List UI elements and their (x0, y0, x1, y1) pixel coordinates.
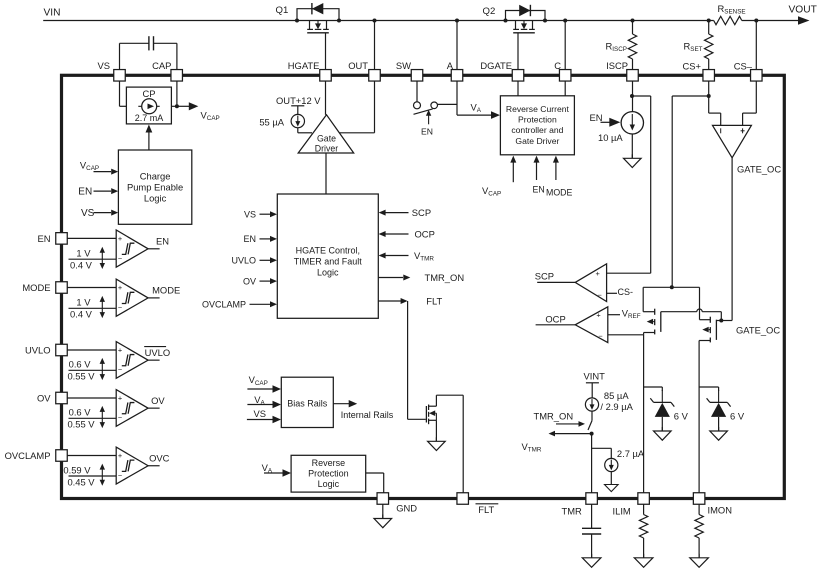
wire FLT NMOS drain to FLT pin (435, 395, 437, 406)
junction FET rail (670, 285, 674, 289)
wire C to RCP (564, 81, 566, 96)
wire FET gate line (661, 311, 697, 313)
wire VS pin to CP (119, 81, 121, 106)
svg-text:10 µA: 10 µA (598, 132, 623, 143)
resistor RISCP (632, 21, 634, 35)
svg-text:6 V: 6 V (730, 410, 745, 421)
svg-text:MODE: MODE (546, 188, 573, 198)
ground 10uA (631, 154, 633, 158)
svg-text:Logic: Logic (144, 193, 167, 204)
block HGATE Control (277, 194, 378, 318)
net VTMR arrow (553, 433, 592, 435)
input VCAP to RCP (512, 163, 514, 183)
wire ISCP pin down (632, 81, 634, 112)
svg-text:GATE_OC: GATE_OC (737, 164, 781, 175)
wire SCP minus input stub (607, 292, 617, 294)
wire IMON to zener2 (699, 386, 719, 388)
wire Q1 gate to HGATE (325, 33, 327, 70)
svg-text:SCP: SCP (535, 271, 554, 282)
wire OCP minus input (608, 334, 644, 336)
svg-text:EN: EN (243, 234, 256, 244)
output Internal Rails (333, 403, 349, 405)
svg-text:Internal Rails: Internal Rails (341, 410, 394, 420)
transistor ILIM FET (642, 287, 644, 311)
svg-text:OVCLAMP: OVCLAMP (202, 300, 246, 310)
input EN to RCP (536, 163, 538, 181)
pin OUT (369, 70, 381, 82)
wire DGATE to RCP (517, 81, 519, 96)
svg-text:+: + (596, 269, 600, 278)
svg-text:Q2: Q2 (483, 6, 496, 17)
wire OCP plus input stub (608, 314, 620, 316)
svg-text:0.4 V: 0.4 V (70, 260, 93, 271)
pin CS+ (703, 70, 715, 82)
ground RIMON (698, 554, 700, 558)
output TMR_ON (378, 277, 403, 279)
pin IMON (693, 493, 705, 505)
junction Q2 left (504, 19, 508, 23)
svg-text:6 V: 6 V (674, 410, 689, 421)
net VINT terminal (586, 382, 599, 384)
svg-text:+: + (118, 346, 122, 355)
wire 55uA to gate driver (297, 128, 299, 133)
svg-text:IMON: IMON (708, 505, 732, 516)
svg-text:CAP: CAP (152, 60, 171, 71)
pin ILIM (638, 493, 650, 505)
svg-text:+: + (118, 451, 122, 460)
block Reverse Protection Logic (291, 455, 366, 492)
svg-text:EN: EN (37, 233, 50, 244)
wire IMON FET drain down (698, 341, 700, 493)
svg-text:EN: EN (590, 112, 603, 123)
block Charge Pump Enable Logic (118, 150, 191, 224)
svg-text:ISCP: ISCP (606, 60, 628, 71)
pin C (559, 70, 571, 82)
svg-text:VS: VS (97, 60, 110, 71)
pin MODE (56, 282, 68, 294)
svg-text:EN: EN (533, 185, 545, 195)
svg-text:TMR_ON: TMR_ON (425, 272, 465, 283)
svg-text:Charge: Charge (140, 171, 171, 182)
capacitor CVS loop left (119, 43, 121, 69)
wire CS+ rail to FETs (643, 286, 699, 288)
capacitor CVS plates (148, 36, 150, 50)
svg-text:Protection: Protection (518, 115, 557, 125)
svg-text:−: − (598, 290, 602, 299)
transistor Q2 body-diode loop (506, 11, 546, 21)
svg-text:−: − (118, 413, 122, 422)
wire OUT to gate driver (374, 81, 376, 133)
svg-text:A: A (447, 60, 454, 71)
svg-text:55 µA: 55 µA (259, 116, 284, 127)
pin TMR (586, 493, 598, 505)
diode of Q2 (cathode right) (519, 5, 530, 16)
svg-text:+: + (118, 283, 122, 292)
junction ISCP branch (630, 94, 634, 98)
junction Q2 right (543, 19, 547, 23)
svg-text:0.59 V: 0.59 V (63, 464, 91, 475)
input VTMR to HGATE logic (385, 255, 409, 257)
op-amp GATE_OC (713, 125, 752, 157)
pin CAP (171, 70, 183, 82)
svg-text:−: − (118, 303, 122, 312)
svg-text:FLT: FLT (478, 504, 494, 515)
ground 2.7uA (605, 485, 619, 492)
comparator OCP (575, 307, 608, 343)
svg-text:MODE: MODE (22, 282, 50, 293)
zener diode 6V left (661, 390, 663, 402)
junction A (455, 19, 459, 23)
switch SW contacts (414, 102, 421, 109)
wire 10uA to ground (631, 134, 633, 158)
pin DGATE (512, 70, 524, 82)
net VCAP arrow (179, 105, 190, 107)
svg-text:DGATE: DGATE (480, 60, 512, 71)
svg-text:1 V: 1 V (76, 248, 91, 259)
junction FET gate node (719, 319, 723, 323)
op-amp gate driver triangle (298, 115, 354, 153)
svg-text:HGATE: HGATE (288, 60, 320, 71)
svg-text:CP: CP (142, 88, 155, 99)
junction RSENSE right / CS- branch (754, 19, 758, 23)
wire CS- pin to rail (755, 21, 757, 70)
svg-text:Driver: Driver (315, 143, 339, 153)
ground GND pin (382, 504, 384, 518)
svg-text:Logic: Logic (317, 267, 339, 277)
capacitor CVS loop right (154, 42, 177, 44)
block Bias Rails (281, 377, 333, 427)
svg-text:OCP: OCP (545, 314, 565, 325)
wire GATE_OC output down (731, 158, 733, 321)
svg-text:TMR: TMR (562, 506, 583, 517)
comparator MODE (1 V / 0.4 V) (67, 287, 116, 289)
svg-text:+: + (118, 394, 122, 403)
block CP charge pump (126, 87, 171, 124)
wire VIN rail (43, 20, 714, 22)
svg-text:OV: OV (37, 392, 51, 403)
IC boundary (62, 75, 785, 498)
svg-text:Protection: Protection (308, 469, 349, 479)
svg-text:EN: EN (156, 235, 169, 246)
svg-text:VS: VS (244, 210, 256, 220)
wire RPL to GND pin (366, 472, 384, 474)
capacitor TMR (591, 504, 593, 528)
wire CS+ to amp minus (709, 112, 721, 114)
wire OUT pin to rail (374, 21, 376, 70)
ground FLT NMOS (435, 437, 437, 441)
svg-text:SW: SW (396, 60, 411, 71)
diode of Q1 (cathode left) (312, 3, 323, 14)
svg-text:Gate Driver: Gate Driver (515, 136, 559, 146)
svg-text:−: − (598, 332, 602, 341)
comparator EN (1 V / 0.4 V) (67, 237, 116, 239)
pin EN (56, 233, 68, 245)
resistor RSET (708, 21, 710, 35)
svg-text:UVLO: UVLO (231, 256, 256, 266)
svg-text:MODE: MODE (152, 285, 180, 296)
svg-text:GND: GND (396, 502, 417, 513)
wire C pin to rail (564, 21, 566, 70)
resistor RIMON (698, 504, 700, 514)
svg-text:OV: OV (243, 276, 256, 286)
comparator OCP output (536, 324, 576, 326)
junction Q1 left (295, 19, 299, 23)
transistor Q1 body-diode loop (297, 9, 339, 21)
wire ILIM to zener1 (644, 386, 663, 388)
svg-text:Q1: Q1 (276, 5, 289, 16)
wire CS+ branch to FET rail (672, 95, 709, 97)
junction C (563, 19, 567, 23)
input MODE to RCP (555, 163, 557, 181)
ground RILIM (643, 554, 645, 558)
junction RSENSE left (707, 19, 711, 23)
wire branch to 2.7uA (592, 447, 612, 449)
junction VTMR node (590, 432, 594, 436)
wire VA to RCP block (457, 114, 493, 116)
wire HGATE pin to gate driver (325, 81, 327, 115)
svg-text:VS: VS (254, 408, 267, 419)
svg-text:VS: VS (81, 208, 95, 219)
svg-text:OUT: OUT (348, 60, 368, 71)
zener diode 6V right (718, 390, 720, 402)
svg-text:2.7 µA: 2.7 µA (617, 448, 645, 459)
switch EN actuation arrow (428, 114, 430, 125)
net VOUT arrow (798, 16, 810, 25)
wire charge pump enable arrow (148, 133, 150, 151)
wire A pin to rail (456, 21, 458, 70)
resistor RSENSE (714, 16, 742, 24)
pin ISCP (627, 70, 639, 82)
svg-text:VINT: VINT (584, 371, 606, 382)
wire FLT down to NMOS gate (407, 301, 409, 419)
svg-text:Reverse: Reverse (312, 458, 346, 468)
pin OV (56, 392, 68, 404)
pin VS (114, 70, 126, 82)
svg-text:−: − (118, 254, 122, 263)
pin FLT (457, 493, 469, 505)
pin HGATE (320, 70, 332, 82)
svg-text:0.6 V: 0.6 V (69, 407, 92, 418)
block Reverse Current Protection (500, 96, 574, 155)
comparator OV (0.6 V / 0.55 V) (67, 397, 116, 399)
junction OUT (373, 19, 377, 23)
svg-text:GATE_OC: GATE_OC (736, 324, 780, 335)
svg-text:TMR_ON: TMR_ON (534, 411, 574, 422)
svg-text:ILIM: ILIM (613, 506, 631, 517)
svg-text:OVCLAMP: OVCLAMP (5, 450, 51, 461)
transistor FLT NMOS (425, 406, 427, 423)
svg-text:UVLO: UVLO (25, 344, 51, 355)
svg-text:FLT: FLT (426, 295, 442, 306)
switch SW blade (414, 109, 433, 114)
ground TMR (591, 554, 593, 558)
svg-text:85 µA: 85 µA (604, 390, 629, 401)
input SCP to HGATE logic (385, 212, 409, 214)
junction CS+ branch (707, 94, 711, 98)
wire A pin down (456, 81, 458, 115)
wire FLT NMOS source to ground (435, 420, 437, 441)
svg-text:0.4 V: 0.4 V (70, 309, 93, 320)
svg-text:Logic: Logic (318, 479, 340, 489)
svg-text:EN: EN (78, 187, 92, 198)
svg-text:Bias Rails: Bias Rails (287, 399, 328, 409)
pin SW (411, 70, 423, 82)
svg-text:Reverse Current: Reverse Current (506, 104, 570, 114)
current source 85uA/2.9uA (585, 398, 598, 411)
output FLT (378, 300, 401, 302)
comparator OVC (0.59 V / 0.45 V) (67, 455, 116, 457)
pin OVCLAMP (56, 450, 68, 462)
svg-text:Pump Enable: Pump Enable (127, 182, 183, 193)
svg-text:SCP: SCP (412, 207, 431, 218)
switch TMR_ON arrow (556, 423, 580, 425)
svg-text:−: − (118, 471, 122, 480)
input OCP to HGATE logic (385, 233, 409, 235)
svg-text:TIMER and Fault: TIMER and Fault (294, 256, 363, 266)
resistor RILIM (643, 504, 645, 514)
wire CS- pin down (755, 81, 757, 113)
junction VCAP node (175, 104, 179, 108)
wire rail right segment (742, 20, 799, 22)
wire switch to node A (438, 103, 457, 105)
junction RISCP top (631, 19, 635, 23)
svg-text:C: C (554, 60, 561, 71)
svg-text:+: + (118, 234, 122, 243)
svg-text:+: + (596, 311, 600, 320)
svg-text:/ 2.9 µA: / 2.9 µA (600, 401, 633, 412)
current source 55uA (291, 105, 304, 107)
current source CP circle (138, 105, 159, 107)
svg-text:0.55 V: 0.55 V (67, 371, 95, 382)
op-amp GATE_OC input marks (720, 128, 722, 133)
svg-text:Gate: Gate (317, 133, 336, 143)
pin A (451, 70, 463, 82)
switch TMR_ON (591, 411, 593, 421)
pin CS- (751, 70, 763, 82)
svg-text:UVLO: UVLO (145, 347, 171, 358)
comparator UVLO (0.6 V / 0.55 V) (67, 349, 116, 351)
svg-text:HGATE Control,: HGATE Control, (296, 245, 360, 255)
current source 2.7uA (605, 458, 618, 471)
wire CP to CAP pin (171, 105, 177, 107)
svg-text:OUT+12 V: OUT+12 V (276, 95, 321, 106)
wire VTMR to TMR pin (591, 434, 593, 493)
svg-text:VIN: VIN (44, 7, 61, 18)
svg-text:CS-: CS- (618, 287, 634, 297)
wire 2.7uA to ground (610, 472, 612, 485)
svg-text:OCP: OCP (415, 229, 435, 240)
pin GND (377, 493, 389, 505)
comparator SCP output (537, 281, 575, 283)
svg-text:1 V: 1 V (76, 297, 91, 308)
wire gate driver to HGATE logic (325, 153, 327, 194)
svg-text:OV: OV (151, 395, 165, 406)
svg-text:0.6 V: 0.6 V (69, 359, 92, 370)
svg-text:CS–: CS– (734, 61, 753, 72)
pin UVLO (56, 344, 68, 356)
svg-text:−: − (118, 365, 122, 374)
wire SW pin to switch (416, 81, 418, 102)
svg-text:VOUT: VOUT (789, 5, 817, 16)
svg-text:CS+: CS+ (683, 61, 702, 72)
transistor Q2 MOSFET (515, 21, 517, 30)
wire ISCP to SCP comparator (632, 95, 651, 97)
svg-text:controller and: controller and (511, 125, 563, 135)
svg-text:OVC: OVC (149, 452, 170, 463)
wire SCP plus input (607, 272, 651, 274)
wire CS+ pin down (708, 81, 710, 113)
svg-text:0.45 V: 0.45 V (67, 476, 95, 487)
junction Q1 right (337, 19, 341, 23)
svg-text:EN: EN (421, 127, 433, 137)
svg-text:2.7 mA: 2.7 mA (135, 113, 164, 123)
transistor IMON FET (699, 287, 701, 319)
transistor Q1 MOSFET (309, 21, 311, 30)
wire Q2 gate to DGATE (517, 33, 519, 70)
comparator SCP (575, 264, 606, 302)
svg-text:0.55 V: 0.55 V (67, 419, 95, 430)
current source 10uA (621, 112, 643, 134)
wire ILIM FET drain down (643, 335, 645, 493)
